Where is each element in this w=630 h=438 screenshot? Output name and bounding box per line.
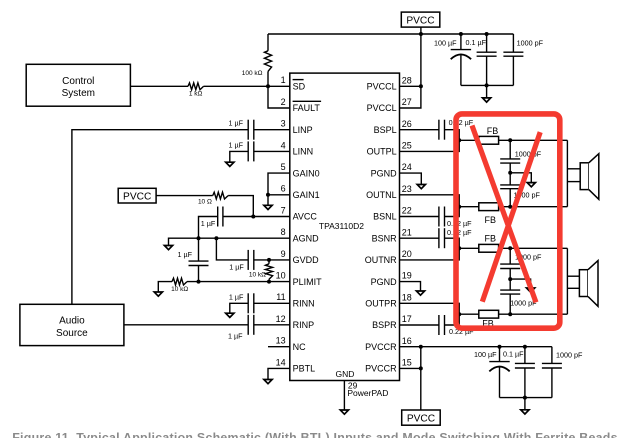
svg-text:Control: Control <box>62 76 94 87</box>
svg-text:11: 11 <box>276 292 285 302</box>
svg-text:5: 5 <box>281 162 286 172</box>
svg-text:6: 6 <box>281 184 286 194</box>
svg-text:20: 20 <box>402 249 412 259</box>
svg-text:1 µF: 1 µF <box>228 140 243 149</box>
svg-text:RINP: RINP <box>293 320 315 330</box>
svg-text:26: 26 <box>402 119 412 129</box>
svg-text:17: 17 <box>402 314 412 324</box>
svg-text:PVCCR: PVCCR <box>365 364 397 374</box>
svg-text:0.1 µF: 0.1 µF <box>503 349 524 358</box>
svg-text:8: 8 <box>281 227 286 237</box>
svg-text:OUTNR: OUTNR <box>365 255 397 265</box>
svg-text:SD: SD <box>293 82 306 92</box>
svg-text:25: 25 <box>402 141 412 151</box>
svg-text:BSPL: BSPL <box>374 125 397 135</box>
svg-text:24: 24 <box>402 162 412 172</box>
svg-text:PVCCR: PVCCR <box>365 342 397 352</box>
svg-text:GND: GND <box>336 369 355 379</box>
svg-text:10: 10 <box>276 271 286 281</box>
svg-text:BSNR: BSNR <box>372 233 398 243</box>
svg-text:FB: FB <box>485 215 497 225</box>
svg-text:1 kΩ: 1 kΩ <box>189 91 203 98</box>
svg-text:Audio: Audio <box>59 316 85 327</box>
svg-text:OUTPL: OUTPL <box>367 147 397 157</box>
svg-text:1 µF: 1 µF <box>229 293 244 302</box>
svg-text:FB: FB <box>487 126 499 136</box>
svg-text:AVCC: AVCC <box>293 212 318 222</box>
svg-text:System: System <box>62 88 95 99</box>
svg-text:28: 28 <box>402 75 412 85</box>
svg-text:1 µF: 1 µF <box>228 331 243 340</box>
svg-text:OUTPR: OUTPR <box>365 299 397 309</box>
svg-text:22: 22 <box>402 206 412 216</box>
svg-text:10 kΩ: 10 kΩ <box>171 286 188 293</box>
svg-text:0.22 µF: 0.22 µF <box>449 118 474 127</box>
svg-text:10 Ω: 10 Ω <box>198 199 212 206</box>
svg-text:AGND: AGND <box>293 233 320 243</box>
svg-text:PGND: PGND <box>371 168 398 178</box>
svg-text:23: 23 <box>402 184 412 194</box>
svg-text:LINN: LINN <box>293 147 314 157</box>
svg-text:1000 pF: 1000 pF <box>515 150 542 159</box>
svg-text:0.22 µF: 0.22 µF <box>447 228 472 237</box>
svg-text:1: 1 <box>281 75 286 85</box>
svg-text:100 µF: 100 µF <box>434 38 457 47</box>
svg-text:PBTL: PBTL <box>293 364 316 374</box>
svg-text:12: 12 <box>276 314 286 324</box>
svg-text:PVCC: PVCC <box>123 191 151 202</box>
svg-text:PVCCL: PVCCL <box>367 103 397 113</box>
svg-text:OUTNL: OUTNL <box>366 190 397 200</box>
svg-text:LINP: LINP <box>293 125 313 135</box>
svg-text:1000 pF: 1000 pF <box>517 39 544 48</box>
svg-text:100 µF: 100 µF <box>474 350 497 359</box>
svg-text:PVCC: PVCC <box>406 15 434 26</box>
svg-text:GVDD: GVDD <box>293 255 320 265</box>
svg-text:13: 13 <box>276 336 286 346</box>
svg-text:FB: FB <box>485 234 497 244</box>
svg-text:1000 pF: 1000 pF <box>556 351 583 360</box>
svg-text:0.22 µF: 0.22 µF <box>447 219 472 228</box>
svg-text:PGND: PGND <box>371 277 398 287</box>
svg-text:16: 16 <box>402 336 412 346</box>
svg-text:15: 15 <box>402 358 412 368</box>
svg-text:9: 9 <box>281 249 286 259</box>
svg-text:1 µF: 1 µF <box>229 263 244 272</box>
svg-text:1 µF: 1 µF <box>178 250 193 259</box>
svg-text:BSPR: BSPR <box>372 320 397 330</box>
svg-text:BSNL: BSNL <box>373 212 397 222</box>
svg-text:14: 14 <box>276 357 286 367</box>
svg-text:TPA3110D2: TPA3110D2 <box>319 221 364 231</box>
svg-text:GAIN0: GAIN0 <box>293 168 320 178</box>
svg-text:10 kΩ: 10 kΩ <box>249 271 266 278</box>
svg-text:FAULT: FAULT <box>293 103 321 113</box>
svg-text:3: 3 <box>281 119 286 129</box>
svg-text:1 µF: 1 µF <box>201 219 216 228</box>
svg-text:0.1 µF: 0.1 µF <box>465 38 486 47</box>
svg-text:21: 21 <box>402 227 412 237</box>
svg-text:27: 27 <box>402 97 412 107</box>
svg-text:GAIN1: GAIN1 <box>293 190 320 200</box>
svg-text:4: 4 <box>281 140 286 150</box>
svg-text:100 kΩ: 100 kΩ <box>242 70 263 77</box>
svg-text:NC: NC <box>293 342 306 352</box>
svg-text:2: 2 <box>281 97 286 107</box>
svg-text:1 µF: 1 µF <box>228 118 243 127</box>
svg-text:PLIMIT: PLIMIT <box>293 277 323 287</box>
svg-text:PowerPAD: PowerPAD <box>347 388 388 398</box>
svg-text:18: 18 <box>402 292 412 302</box>
svg-text:Source: Source <box>56 328 88 339</box>
svg-text:RINN: RINN <box>293 299 315 309</box>
svg-text:7: 7 <box>281 205 286 215</box>
svg-text:Figure 11. Typical Application: Figure 11. Typical Application Schematic… <box>12 431 618 438</box>
svg-text:PVCC: PVCC <box>407 413 435 424</box>
svg-text:PVCCL: PVCCL <box>367 82 397 92</box>
svg-text:19: 19 <box>402 271 412 281</box>
